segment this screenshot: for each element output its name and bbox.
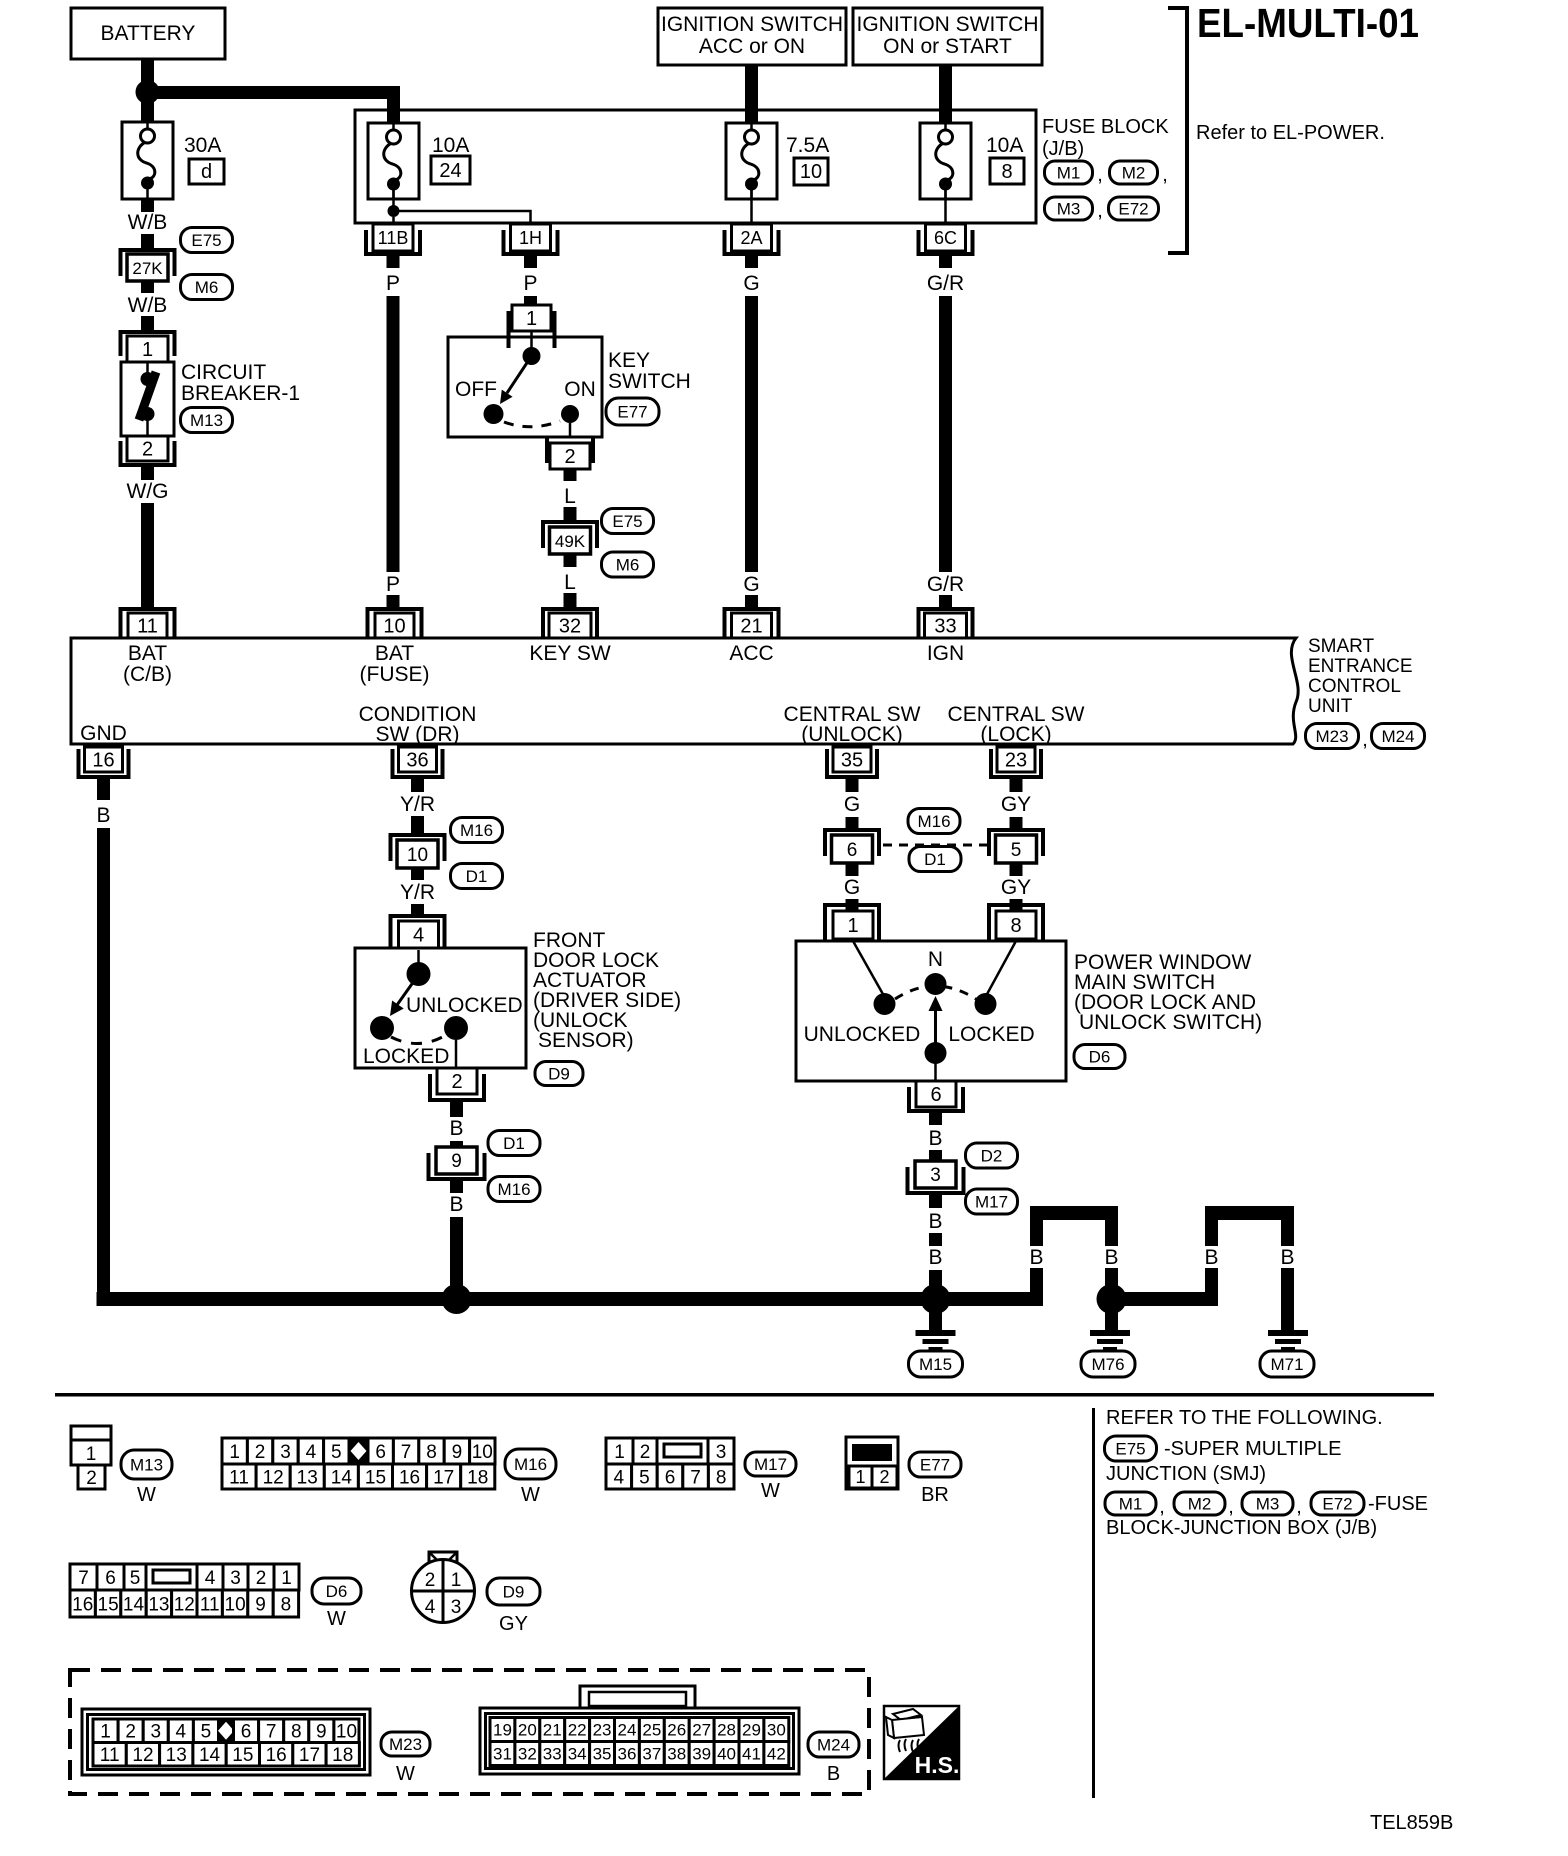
wire fuse8 to 6C (944, 184, 947, 225)
ground bus horizontal 2 (1112, 1292, 1219, 1306)
label L (564, 485, 576, 508)
fuse 30A d (122, 122, 173, 199)
comma (1296, 1496, 1302, 1518)
pin 35 of smart unit (827, 747, 877, 777)
svg-text:D1: D1 (924, 850, 946, 869)
connector 10 M16/D1 (391, 835, 445, 868)
wire stub (564, 469, 577, 481)
pin 32 of smart unit (543, 609, 597, 638)
svg-text:13: 13 (297, 1467, 318, 1488)
svg-text:12: 12 (132, 1745, 153, 1766)
svg-text:M17: M17 (975, 1193, 1008, 1212)
wire stub (1010, 899, 1023, 911)
svg-text:2: 2 (425, 1570, 436, 1591)
label B (928, 1246, 942, 1269)
label GY (1001, 876, 1031, 899)
svg-text:W/B: W/B (128, 294, 168, 317)
label B (928, 1127, 942, 1150)
label L (564, 571, 576, 594)
connector 6 M16/D1 (825, 830, 879, 863)
node under fuse 24 (388, 205, 400, 217)
svg-text:8: 8 (716, 1467, 727, 1488)
svg-text:6: 6 (930, 1084, 941, 1106)
svg-text:M71: M71 (1270, 1355, 1303, 1374)
wire bus top 1 (1030, 1206, 1118, 1220)
wire stub (929, 1195, 942, 1208)
svg-text:L: L (564, 485, 576, 508)
connector tag M16 (908, 809, 960, 834)
svg-text:B: B (928, 1246, 942, 1269)
wire START to fuse 8 (939, 65, 952, 124)
label W (761, 1480, 780, 1502)
label 7.5A 10 (786, 134, 829, 185)
svg-text:4: 4 (306, 1442, 317, 1463)
svg-text:15: 15 (365, 1467, 386, 1488)
connector tag M3 (1045, 197, 1093, 220)
connector tag M1 (1105, 1492, 1156, 1515)
note FUSE BLOCK-JUNCTION BOX (1106, 1493, 1428, 1539)
connector tag M2 (1174, 1492, 1225, 1515)
svg-text:4: 4 (205, 1568, 216, 1589)
svg-text:BATTERY: BATTERY (101, 22, 196, 45)
connector face E77 (846, 1437, 898, 1489)
pin 33 of smart unit (919, 609, 973, 638)
svg-text:4: 4 (413, 925, 424, 947)
pin 10 of smart unit (368, 609, 422, 638)
svg-text:23: 23 (593, 1721, 612, 1740)
label B (449, 1193, 463, 1216)
svg-text:G: G (743, 573, 759, 596)
svg-text:B: B (928, 1210, 942, 1233)
svg-text:D1: D1 (466, 867, 488, 886)
comma (1097, 200, 1103, 222)
svg-text:6: 6 (847, 840, 858, 861)
svg-text:33: 33 (934, 616, 956, 638)
connector tag M1 (1045, 161, 1093, 184)
wire stub below pin 16 (97, 779, 110, 800)
svg-text:4: 4 (614, 1467, 625, 1488)
ignition switch ON-or-START box (853, 8, 1042, 65)
svg-text:B: B (827, 1763, 840, 1785)
svg-text:14: 14 (123, 1594, 145, 1615)
svg-text:IGN: IGN (927, 642, 964, 665)
svg-text:13: 13 (148, 1594, 169, 1615)
connector tag D6 (312, 1578, 361, 1604)
wire fuse10 to 2A (750, 184, 753, 225)
wire stub (141, 281, 154, 293)
svg-text:E75: E75 (612, 512, 642, 531)
connector tag E75 (602, 509, 654, 534)
wire stub (846, 899, 859, 911)
label LOCKED (363, 1045, 449, 1068)
svg-text:M2: M2 (1122, 164, 1146, 183)
wire dash (929, 1233, 942, 1246)
svg-text:10: 10 (336, 1722, 357, 1743)
comma (1159, 1496, 1165, 1518)
svg-text:E75: E75 (191, 231, 221, 250)
connector 1H (504, 224, 558, 254)
key switch pin 1 (509, 305, 555, 348)
connector 6C (919, 224, 973, 254)
svg-text:10A: 10A (432, 134, 469, 157)
connector tag M23 (381, 1732, 430, 1756)
svg-text:24: 24 (617, 1721, 636, 1740)
svg-text:M76: M76 (1091, 1355, 1124, 1374)
ground tag M76 (1081, 1351, 1135, 1377)
svg-text:27K: 27K (132, 259, 163, 278)
svg-text:FUSE BLOCK: FUSE BLOCK (1042, 116, 1169, 138)
svg-text:12: 12 (263, 1467, 284, 1488)
pin 11 of smart unit (121, 609, 175, 638)
wire drop to fuse 24 (387, 92, 400, 123)
power window main switch box (796, 941, 1066, 1081)
wire P (387, 296, 400, 572)
svg-text:41: 41 (742, 1745, 761, 1764)
pin 36 of smart unit (393, 747, 443, 777)
battery box (71, 8, 225, 59)
connector 9 D1/M16 (429, 1147, 485, 1179)
wire junction to 11B (392, 217, 395, 224)
svg-text:11: 11 (200, 1594, 220, 1615)
label B (449, 1117, 463, 1140)
wire stub (846, 817, 859, 828)
label Y/R (400, 881, 435, 904)
svg-text:M16: M16 (460, 821, 493, 840)
wire bus down to M71 ground (1281, 1220, 1294, 1330)
svg-text:14: 14 (199, 1745, 221, 1766)
svg-text:1: 1 (847, 915, 858, 937)
svg-text:27: 27 (692, 1721, 711, 1740)
svg-text:2: 2 (564, 446, 575, 468)
svg-text:E72: E72 (1118, 200, 1148, 219)
svg-text:M23: M23 (1315, 727, 1348, 746)
label GND (80, 722, 127, 745)
wire bus down right (1105, 1220, 1118, 1299)
wire stub below 1H (524, 256, 537, 268)
connector 27K (121, 250, 175, 281)
svg-text:16: 16 (266, 1745, 287, 1766)
svg-text:39: 39 (692, 1745, 711, 1764)
svg-text:(C/B): (C/B) (123, 663, 172, 686)
svg-text:E75: E75 (1115, 1440, 1145, 1459)
connector tag M17 (966, 1189, 1018, 1214)
comma (1162, 164, 1168, 186)
svg-text:8: 8 (426, 1442, 437, 1463)
connector face D9 (412, 1552, 475, 1623)
wire stub below fuse d (141, 199, 154, 212)
svg-text:,: , (1162, 164, 1168, 186)
connector face M16 (222, 1437, 495, 1490)
svg-text:10: 10 (407, 845, 428, 866)
svg-text:KEY: KEY (608, 349, 650, 372)
label FUSE BLOCK (J/B) (1042, 116, 1169, 160)
wire stub (564, 507, 577, 520)
wire stub (450, 1102, 463, 1117)
front door lock actuator box (355, 948, 526, 1068)
H.S. view icon (884, 1706, 959, 1779)
svg-text:CONTROL: CONTROL (1308, 676, 1401, 697)
wire bus up left (1030, 1220, 1043, 1299)
label P (386, 272, 400, 295)
label UNLOCKED (804, 1023, 921, 1046)
svg-text:11: 11 (229, 1467, 249, 1488)
svg-text:7: 7 (690, 1467, 701, 1488)
svg-text:1: 1 (526, 308, 537, 330)
svg-text:E77: E77 (617, 403, 647, 422)
svg-text:Y/R: Y/R (400, 881, 435, 904)
svg-text:-SUPER MULTIPLE: -SUPER MULTIPLE (1164, 1438, 1341, 1460)
svg-text:G: G (743, 272, 759, 295)
label B (928, 1210, 942, 1233)
svg-text:D2: D2 (981, 1147, 1003, 1166)
svg-text:Refer to EL-POWER.: Refer to EL-POWER. (1196, 122, 1385, 144)
wire ACC to fuse 10 (745, 65, 758, 124)
connector tag M16 (488, 1177, 540, 1202)
svg-text:37: 37 (642, 1745, 661, 1764)
ground bus horizontal (97, 1292, 1044, 1306)
key switch pin 2 (547, 437, 593, 469)
svg-text:24: 24 (439, 160, 461, 182)
svg-text:36: 36 (617, 1745, 636, 1764)
connector face M24 (480, 1686, 799, 1774)
connector tag D1 (909, 847, 961, 872)
svg-text:13: 13 (166, 1745, 187, 1766)
svg-text:W: W (521, 1484, 540, 1506)
dashed link connector 6 to 5 (883, 844, 988, 847)
svg-text:6: 6 (665, 1467, 676, 1488)
harness dashed box (70, 1670, 869, 1794)
svg-text:9: 9 (451, 1151, 462, 1172)
svg-text:ACC: ACC (729, 642, 773, 665)
svg-text:BR: BR (921, 1484, 949, 1506)
svg-text:10: 10 (800, 161, 822, 183)
wire stub below pin 35 (846, 779, 859, 792)
svg-text:28: 28 (717, 1721, 736, 1740)
svg-text:M6: M6 (195, 278, 219, 297)
svg-text:M13: M13 (130, 1456, 163, 1475)
svg-text:B: B (1280, 1246, 1294, 1269)
svg-text:5: 5 (639, 1467, 650, 1488)
ground M15 (916, 1330, 956, 1351)
svg-text:M1: M1 (1057, 164, 1081, 183)
svg-text:SMART: SMART (1308, 636, 1375, 657)
svg-text:16: 16 (92, 750, 114, 772)
svg-text:30A: 30A (184, 134, 221, 157)
svg-text:3: 3 (150, 1722, 161, 1743)
pin 4 of door lock actuator (391, 916, 445, 948)
label BR (921, 1484, 949, 1506)
pin 1 of power window main switch (825, 905, 879, 941)
svg-text:9: 9 (255, 1594, 266, 1615)
svg-text:40: 40 (717, 1745, 736, 1764)
svg-text:2: 2 (86, 1468, 97, 1489)
note Refer to EL-POWER (1196, 122, 1385, 144)
svg-text:1H: 1H (519, 228, 542, 248)
svg-text:M6: M6 (616, 556, 640, 575)
svg-text:29: 29 (742, 1721, 761, 1740)
svg-text:9: 9 (316, 1722, 327, 1743)
svg-text:B: B (96, 804, 110, 827)
wire junction to M15 ground (929, 1306, 942, 1330)
wire stub below 11B (387, 256, 400, 268)
connector face M23 (82, 1709, 370, 1775)
svg-text:6: 6 (241, 1722, 252, 1743)
connector tag E77 (606, 398, 659, 425)
svg-text:(J/B): (J/B) (1042, 138, 1084, 160)
label G/R (927, 573, 964, 596)
svg-text:5: 5 (130, 1568, 141, 1589)
svg-text:E72: E72 (1322, 1495, 1352, 1514)
pin 21 of smart unit (725, 609, 779, 638)
svg-text:7.5A: 7.5A (786, 134, 829, 157)
svg-text:,: , (1296, 1496, 1302, 1518)
svg-text:BAT: BAT (128, 642, 167, 665)
svg-text:KEY SW: KEY SW (529, 642, 610, 665)
label ON (564, 378, 596, 401)
ground tag M71 (1260, 1351, 1314, 1377)
svg-text:M3: M3 (1057, 200, 1081, 219)
wire B to ground bus (450, 1217, 463, 1299)
pin 16 of smart unit (79, 747, 129, 777)
svg-text:18: 18 (332, 1745, 353, 1766)
svg-text:IGNITION SWITCH: IGNITION SWITCH (857, 13, 1039, 36)
svg-text:2: 2 (255, 1442, 266, 1463)
wire stub (141, 234, 154, 248)
pin 6 of power window main switch (909, 1081, 963, 1111)
svg-text:GY: GY (499, 1613, 528, 1635)
svg-text:1: 1 (86, 1444, 97, 1465)
label BAT (C/B) (123, 642, 172, 686)
svg-text:12: 12 (174, 1594, 195, 1615)
wire junction to fuse d (141, 99, 154, 122)
figure code TEL859B (1370, 1812, 1453, 1834)
svg-text:1: 1 (100, 1722, 111, 1743)
comma (1362, 729, 1368, 751)
svg-text:W: W (761, 1480, 780, 1502)
svg-text:TEL859B: TEL859B (1370, 1812, 1453, 1834)
svg-text:ACC or ON: ACC or ON (699, 35, 805, 58)
fuse 10A 24 (368, 123, 419, 199)
svg-text:CIRCUIT: CIRCUIT (181, 361, 266, 384)
svg-text:UNLOCKED: UNLOCKED (804, 1023, 921, 1046)
svg-text:1: 1 (451, 1570, 462, 1591)
svg-text:21: 21 (740, 616, 762, 638)
connector 5 M16/D1 (989, 830, 1043, 863)
svg-text:GND: GND (80, 722, 127, 745)
wire bus up left 2 (1205, 1220, 1218, 1299)
wire bus top 2 (1205, 1206, 1294, 1220)
svg-text:5: 5 (331, 1442, 342, 1463)
svg-text:3: 3 (716, 1442, 727, 1463)
svg-text:W: W (137, 1484, 156, 1506)
svg-text:SW (DR): SW (DR) (376, 723, 460, 746)
svg-text:-FUSE: -FUSE (1368, 1493, 1428, 1515)
connector tag M23 (1306, 724, 1359, 749)
svg-text:B: B (449, 1117, 463, 1140)
fuse block J/B box (355, 110, 1036, 223)
ignition switch ACC-or-ON box (658, 8, 846, 65)
wire battery to junction (141, 59, 154, 86)
comma (1228, 1496, 1234, 1518)
connector face M13 (71, 1426, 111, 1489)
connector face M17 (606, 1438, 734, 1489)
svg-text:M13: M13 (190, 411, 223, 430)
svg-text:1: 1 (142, 339, 153, 361)
svg-text:17: 17 (299, 1745, 320, 1766)
svg-text:BAT: BAT (375, 642, 414, 665)
svg-text:8: 8 (1001, 161, 1012, 183)
wire stub (929, 1150, 942, 1161)
circuit breaker CB-1 pin 1 (121, 332, 175, 362)
connector 3 D2/M17 (908, 1161, 964, 1193)
svg-text:BREAKER-1: BREAKER-1 (181, 382, 300, 405)
svg-text:8: 8 (291, 1722, 302, 1743)
svg-text:5: 5 (1011, 840, 1022, 861)
wire stub (141, 467, 154, 480)
svg-text:Y/R: Y/R (400, 793, 435, 816)
label Y/R (400, 793, 435, 816)
connector tag M16 (451, 818, 503, 843)
key switch box (448, 337, 602, 437)
label G (743, 573, 759, 596)
connector tag M13 (121, 1450, 172, 1479)
svg-text:26: 26 (667, 1721, 686, 1740)
wire stub to junction (929, 1270, 942, 1299)
connector tag E72 (1109, 197, 1159, 220)
wire stub (1010, 863, 1023, 876)
svg-text:22: 22 (568, 1721, 587, 1740)
ground M76 (1090, 1330, 1130, 1351)
legend divider line (1092, 1408, 1095, 1798)
svg-text:M1: M1 (1119, 1495, 1143, 1514)
wire fuse24 to junction (392, 184, 395, 206)
wire stub (524, 296, 537, 305)
connector tag E72 (1311, 1492, 1364, 1515)
svg-text:EL-MULTI-01: EL-MULTI-01 (1197, 0, 1419, 46)
svg-text:L: L (564, 571, 576, 594)
svg-text:M24: M24 (817, 1736, 850, 1755)
svg-text:(UNLOCK): (UNLOCK) (801, 723, 903, 746)
svg-text:6: 6 (375, 1442, 386, 1463)
label W/B (128, 294, 168, 317)
svg-text:M2: M2 (1188, 1495, 1212, 1514)
label P (386, 573, 400, 596)
label G (844, 876, 860, 899)
svg-text:B: B (449, 1193, 463, 1216)
connector tag M6 (602, 552, 654, 577)
wire stub (411, 868, 424, 880)
svg-text:,: , (1362, 729, 1368, 751)
label B (1204, 1246, 1218, 1269)
svg-text:LOCKED: LOCKED (948, 1023, 1034, 1046)
svg-text:M24: M24 (1381, 727, 1414, 746)
wire W/G down to pin 11 (141, 503, 154, 607)
svg-text:32: 32 (518, 1745, 537, 1764)
svg-text:SWITCH: SWITCH (608, 370, 691, 393)
svg-text:2: 2 (142, 439, 153, 461)
svg-text:P: P (386, 272, 400, 295)
label FRONT DOOR LOCK ACTUATOR (533, 929, 681, 1052)
svg-text:18: 18 (467, 1467, 488, 1488)
connector face D6 (70, 1564, 299, 1617)
title EL-MULTI-01 (1197, 0, 1419, 46)
connector tag D1 (451, 864, 503, 889)
wire stub (141, 316, 154, 331)
svg-text:M16: M16 (497, 1180, 530, 1199)
connector tag D9 (535, 1062, 583, 1086)
svg-text:10: 10 (225, 1594, 246, 1615)
connector tag E77 (909, 1452, 961, 1477)
